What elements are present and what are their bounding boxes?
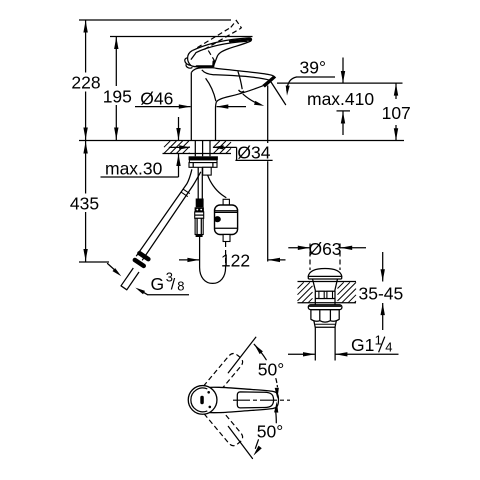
handle centerline bbox=[233, 399, 290, 401]
faucet body left edge bbox=[190, 72, 192, 140]
weight bottom tab bbox=[223, 235, 230, 242]
dimension G1 1/4 bbox=[288, 353, 315, 355]
dimension 435 bbox=[85, 141, 87, 194]
hose tail bbox=[121, 268, 139, 290]
lever tip fill bbox=[248, 38, 251, 41]
shank through deck bbox=[194, 141, 196, 157]
handle lever outline (top view) bbox=[199, 387, 279, 412]
39 deg ray bbox=[270, 80, 286, 105]
50deg upper bbox=[228, 337, 256, 373]
rod coupler box bbox=[195, 212, 204, 218]
valve neck taper bbox=[313, 279, 316, 290]
hose braid marks bbox=[183, 189, 190, 193]
dimension 122 bbox=[179, 259, 199, 261]
pull rod bbox=[197, 167, 199, 198]
svg-text:107: 107 bbox=[382, 103, 411, 123]
svg-text:50°: 50° bbox=[258, 360, 284, 380]
weight top tab bbox=[223, 199, 229, 205]
svg-text:228: 228 bbox=[71, 73, 100, 93]
valve barrel bbox=[314, 291, 316, 305]
435 bottom reference line bbox=[79, 261, 109, 263]
flexible hose bbox=[136, 169, 192, 256]
50deg lower bbox=[228, 426, 252, 458]
rod clamp (dark) bbox=[196, 199, 204, 208]
lever top band fill bbox=[230, 38, 252, 48]
svg-text:435: 435 bbox=[70, 193, 99, 213]
leader arrow to hose bbox=[108, 264, 118, 273]
svg-text:8: 8 bbox=[177, 279, 184, 294]
svg-text:/: / bbox=[171, 277, 176, 294]
svg-text:G: G bbox=[151, 274, 165, 294]
overflow slots bbox=[319, 291, 324, 298]
cable hidden (dashed) bbox=[225, 242, 227, 268]
dimension Ø34 bbox=[169, 146, 190, 148]
svg-text:4: 4 bbox=[385, 340, 392, 355]
svg-text:35-45: 35-45 bbox=[359, 284, 404, 304]
sink deck (hatched) bbox=[298, 281, 357, 283]
deck top line bbox=[79, 140, 404, 142]
svg-text:G1: G1 bbox=[351, 335, 374, 355]
dimension 107 bbox=[395, 83, 397, 99]
svg-text:Ø34: Ø34 bbox=[237, 142, 270, 162]
deck hatching left bbox=[164, 141, 170, 147]
extension lines (dashed) bbox=[309, 244, 311, 271]
spout outlet extension line bbox=[267, 86, 269, 144]
lever raised position (dashed) bbox=[197, 27, 231, 47]
aerator (black) bbox=[262, 75, 276, 87]
seal flange bbox=[308, 305, 342, 310]
handle lowered -50 (dashed) bbox=[204, 403, 243, 446]
faucet lever (solid) bbox=[192, 38, 251, 66]
svg-text:max.30: max.30 bbox=[105, 159, 163, 179]
handle raised +50 (dashed) bbox=[204, 353, 243, 396]
max410 reference line bbox=[277, 82, 403, 84]
spout tip bbox=[273, 76, 275, 78]
handle detail marks bbox=[200, 396, 204, 404]
mounting nut bbox=[189, 163, 217, 168]
lever front lip bbox=[185, 58, 191, 66]
spout seam bbox=[238, 71, 242, 89]
drain valve cap bbox=[308, 269, 342, 277]
svg-text:195: 195 bbox=[103, 86, 132, 106]
dimension 195 bbox=[115, 37, 117, 87]
lock nut bbox=[311, 310, 339, 323]
svg-text:39°: 39° bbox=[300, 58, 326, 78]
svg-text:50°: 50° bbox=[257, 421, 283, 441]
svg-text:max.410: max.410 bbox=[307, 89, 374, 109]
faucet body right edge bbox=[215, 102, 218, 141]
extension line (195 ref) bbox=[110, 36, 253, 38]
spout underside bbox=[216, 86, 262, 102]
rod wire bbox=[199, 237, 201, 268]
handle pivot circle bbox=[188, 386, 217, 415]
thread collar bbox=[314, 321, 336, 327]
wire U-bend bbox=[200, 268, 226, 284]
svg-text:1: 1 bbox=[375, 332, 382, 347]
threaded shank end bbox=[203, 167, 212, 175]
svg-text:122: 122 bbox=[221, 251, 250, 271]
hose nut G3/8 bbox=[140, 253, 149, 259]
deck bottom line bbox=[163, 153, 232, 155]
lever top inner edge bbox=[196, 41, 248, 53]
dimension 228 bbox=[85, 20, 87, 73]
washer plate bbox=[189, 156, 218, 160]
faucet cap seat (thick) bbox=[197, 62, 214, 67]
tailpipe bbox=[314, 327, 316, 360]
faucet cap/dome bbox=[191, 68, 215, 73]
handle grip inner bbox=[237, 392, 273, 408]
drain cable bbox=[208, 175, 227, 198]
lever back inner line bbox=[191, 53, 196, 60]
weight body bbox=[215, 205, 238, 235]
svg-text:Ø46: Ø46 bbox=[140, 88, 173, 108]
deck hatching right bbox=[214, 141, 220, 147]
extension line top (228 ref) bbox=[79, 19, 231, 21]
rod lower tube bbox=[195, 218, 203, 234]
39 deg arc arrow bbox=[243, 94, 260, 104]
lever hidden line (dashed) bbox=[208, 51, 216, 64]
body/spout inner arc bbox=[206, 78, 216, 101]
svg-text:Ø63: Ø63 bbox=[308, 239, 341, 259]
spout top edges bbox=[215, 68, 272, 75]
